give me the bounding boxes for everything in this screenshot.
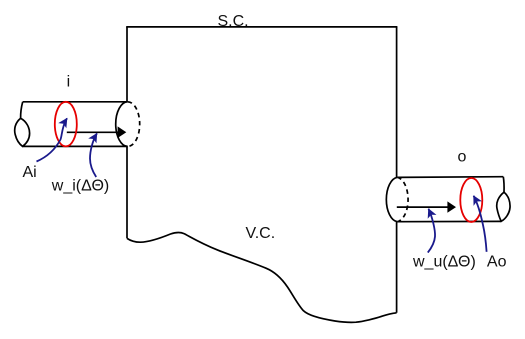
blue leader arrow from w_i to flow arrow <box>90 133 97 177</box>
blue leader arrow from w_u to flow arrow <box>428 209 435 253</box>
pipe o: start ellipse (white fill) <box>385 177 409 222</box>
red ellipse Ai cross-section <box>55 102 77 147</box>
flow arrow in pipe i <box>67 126 127 138</box>
flow arrow in pipe o <box>397 201 456 212</box>
outlet pipe body (right) <box>385 177 510 222</box>
svg-text:Ao: Ao <box>487 253 507 270</box>
pipe o: start ellipse dashed right arc <box>397 177 408 221</box>
blue leader arrow from Ai to cross-section <box>37 118 68 161</box>
svg-text:w_u(ΔΘ): w_u(ΔΘ) <box>412 253 476 270</box>
wire: control-surface box left edge <box>126 27 128 238</box>
pipe i: end ellipse (white fill) <box>116 102 140 147</box>
wire: control-surface box top edge <box>126 26 397 28</box>
pipe i: bottom edge <box>23 145 128 147</box>
red ellipse Ao cross-section <box>460 178 482 222</box>
wire: control-surface box right edge <box>396 27 398 313</box>
svg-text:i: i <box>67 73 71 90</box>
svg-text:w_i(ΔΘ): w_i(ΔΘ) <box>51 178 109 195</box>
pipe o: bottom edge <box>397 220 501 222</box>
pipe o: start ellipse solid left arc <box>386 177 397 221</box>
svg-text:V.C.: V.C. <box>246 225 276 242</box>
pipe i: top edge <box>23 101 128 103</box>
pipe o: top edge <box>397 176 503 179</box>
inlet pipe body (left) <box>15 102 140 147</box>
svg-text:o: o <box>458 148 467 165</box>
blue leader arrow from Ao to cross-section <box>474 196 487 252</box>
pipe i: torn left edge <box>21 102 23 119</box>
pipe i: end ellipse dashed right arc <box>128 102 140 147</box>
svg-text:Ai: Ai <box>23 164 37 181</box>
wire: wavy bottom boundary of control volume <box>127 232 397 322</box>
pipe o: torn right edge <box>502 177 505 193</box>
svg-text:S.C.: S.C. <box>218 13 249 30</box>
pipe i: end ellipse solid left arc <box>116 102 128 147</box>
